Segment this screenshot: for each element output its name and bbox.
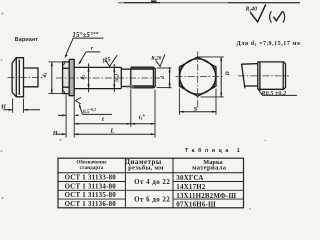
- svg-text:(d1): (d1): [113, 74, 120, 82]
- table col1 rows: [65, 175, 117, 208]
- scan speckles left edge: [1, 13, 266, 210]
- dimension d3 line: [51, 62, 53, 94]
- neck: [242, 63, 258, 66]
- variant head outline: [12, 58, 23, 97]
- svg-text:Rz40: Rz40: [245, 6, 258, 12]
- svg-text:S: S: [194, 106, 198, 113]
- svg-text:Для d1 =7,9,15,17 мм: Для d1 =7,9,15,17 мм: [237, 41, 301, 47]
- svg-text:H: H: [0, 105, 6, 111]
- groove: [120, 67, 122, 88]
- table header text: [76, 159, 226, 172]
- svg-text:ОСТ 1 31133-80: ОСТ 1 31133-80: [65, 175, 117, 182]
- extension verticals bottom: [73, 97, 75, 138]
- table column separators: [124, 158, 126, 208]
- dimension D: [220, 57, 222, 97]
- bolt head hex part: [63, 62, 70, 94]
- detail centerline: [238, 75, 289, 77]
- end block: [258, 62, 286, 89]
- svg-text:Rz20: Rz20: [151, 55, 161, 61]
- bolt head chamfer arcs: [63, 62, 65, 94]
- dimension H (variant): [3, 109, 12, 111]
- svg-text:d: d: [160, 76, 166, 79]
- top border rule: [118, 2, 300, 4]
- dimension d3 extension lines: [49, 61, 70, 63]
- dimension d extensions: [157, 67, 172, 69]
- table col2 rows: [134, 178, 170, 204]
- variant centerline: [8, 77, 45, 79]
- R0,5 leader: [257, 88, 261, 92]
- leader 15deg: [65, 38, 73, 56]
- D extension lines: [199, 56, 224, 58]
- variant H extension lines: [12, 99, 14, 113]
- svg-text:ОСТ 1 31134-80: ОСТ 1 31134-80: [65, 183, 117, 190]
- thread section crest lines: [131, 66, 154, 68]
- table frame: [58, 158, 244, 208]
- svg-text:(25: (25: [102, 56, 111, 64]
- variant shank stub: [24, 68, 39, 87]
- break line: [242, 64, 246, 88]
- bolt head flange (washer face): [69, 59, 74, 95]
- svg-text:резьбы, мм: резьбы, мм: [128, 164, 164, 171]
- S extension lines: [178, 89, 180, 115]
- chamfer circle: [180, 59, 216, 94]
- thread crest bands: [131, 67, 153, 69]
- shank: [74, 66, 121, 68]
- svg-text:t: t: [102, 116, 104, 123]
- dimension d2: [88, 64, 90, 93]
- svg-text:H: H: [52, 131, 58, 137]
- svg-text:ОСТ 1 31136-80: ОСТ 1 31136-80: [65, 201, 117, 208]
- bearing face roughness check: [75, 97, 81, 104]
- svg-text:Вариант: Вариант: [15, 37, 39, 43]
- table col3 rows: [176, 175, 236, 208]
- bolt end chamfer: [152, 67, 154, 88]
- dimension H (main): [57, 133, 67, 135]
- main centerline: [56, 77, 160, 79]
- thread root lines: [132, 68, 154, 70]
- svg-text:стандарта: стандарта: [80, 166, 104, 171]
- svg-text:От 6 до 22: От 6 до 22: [134, 195, 170, 203]
- corner chamfer arcs: [180, 64, 215, 89]
- end chamfer line: [282, 62, 284, 89]
- svg-text:14Х17Н2: 14Х17Н2: [176, 184, 206, 191]
- svg-text:13Х11Н2В2МФ-Ш: 13Х11Н2В2МФ-Ш: [176, 193, 236, 200]
- table header separator: [58, 172, 244, 174]
- hexagon: [179, 57, 216, 96]
- bolt head face lines: [63, 67, 70, 69]
- svg-text:Обозначение: Обозначение: [76, 161, 107, 166]
- table row lines: [58, 181, 125, 183]
- svg-text:07Х16Н6-Ш: 07Х16Н6-Ш: [176, 202, 216, 209]
- dimension L: [74, 133, 155, 135]
- variant head face line: [18, 60, 20, 96]
- svg-text:30ХГСА: 30ХГСА: [176, 175, 203, 182]
- dimension (d1): [113, 64, 115, 92]
- svg-text:От 4 до 22: От 4 до 22: [134, 178, 170, 186]
- dimension t: [74, 123, 131, 125]
- svg-text:D: D: [225, 71, 231, 76]
- hexagon centerlines: [197, 52, 199, 108]
- dimension S: [179, 111, 216, 113]
- svg-text:L: L: [109, 128, 114, 135]
- dark dash artifact top: [151, 0, 157, 2]
- svg-text:Таблица 1: Таблица 1: [185, 147, 243, 154]
- svg-text:ОСТ 1 31135-80: ОСТ 1 31135-80: [65, 192, 117, 199]
- svg-text:R0,5 ±0,2: R0,5 ±0,2: [261, 91, 287, 97]
- (check) symbol: [270, 11, 272, 22]
- svg-text:материала: материала: [192, 164, 227, 171]
- dimension t1*: [131, 123, 155, 125]
- step (thread runout): [257, 62, 259, 89]
